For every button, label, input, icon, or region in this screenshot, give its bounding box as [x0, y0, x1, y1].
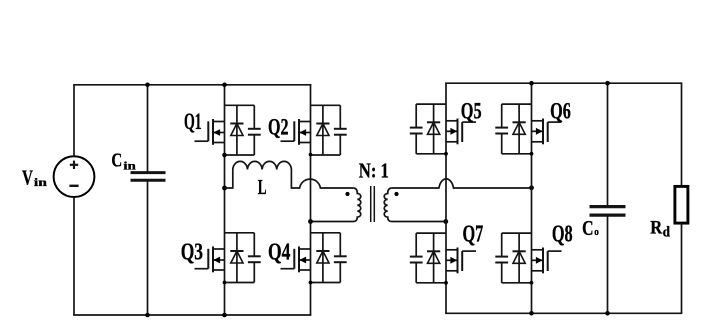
transformer T core	[371, 186, 375, 222]
junction: secondary top to leg D	[529, 185, 534, 190]
svg-text:C: C	[582, 216, 593, 240]
transistor Q7 cell (MOSFET + body diode + parallel capacitor)	[410, 233, 476, 283]
body diode of Q1	[230, 105, 243, 155]
svg-text:in: in	[34, 177, 48, 189]
MOSFET Q8 symbol	[532, 248, 562, 274]
MOSFET Q3 symbol	[195, 247, 225, 273]
junction: leg A bottom rail	[222, 313, 227, 318]
label Co	[582, 216, 599, 240]
junction: leg A top rail	[222, 83, 227, 88]
MOSFET Q1 symbol	[195, 119, 225, 145]
wire: Q2 cell bottom connection	[311, 154, 341, 156]
body diode of Q6	[513, 104, 526, 154]
transistor Q4 cell (MOSFET + body diode + parallel capacitor)	[281, 233, 347, 283]
svg-text:N: 1: N: 1	[359, 161, 389, 183]
wire: secondary top lead with crossover hop to leg D	[392, 179, 532, 188]
body diode of Q7	[427, 233, 440, 283]
junction: Q3 source node	[223, 281, 227, 285]
svg-text:Q4: Q4	[268, 238, 290, 265]
transformer T primary winding	[311, 188, 361, 222]
body diode of Q4	[316, 233, 329, 283]
wire: Q8 cell bottom connection	[502, 282, 532, 284]
transistor Q3 cell (MOSFET + body diode + parallel capacitor)	[195, 233, 261, 283]
wire: right bridge leg D (Q6/Q8)	[531, 83, 533, 313]
wire: source branch lower	[73, 197, 75, 315]
output capacitor Co	[590, 83, 626, 313]
wire: output top rail	[445, 82, 682, 84]
MOSFET Q5 symbol	[446, 119, 476, 145]
wire: Q6 cell top connection	[502, 103, 532, 105]
junction: Cin bottom rail	[145, 313, 150, 318]
svg-text:Q2: Q2	[268, 115, 289, 141]
wire: right bridge leg C (Q5/Q7)	[445, 83, 447, 313]
wire: Q7 cell top connection	[416, 232, 446, 234]
wire: Q5 cell bottom connection	[416, 153, 446, 155]
wire: Q2 cell top connection	[311, 104, 341, 106]
wire: output bottom rail	[445, 312, 682, 314]
wire: Q4 cell bottom connection	[311, 282, 341, 284]
svg-text:d: d	[663, 224, 670, 240]
parallel capacitor of Q4	[334, 233, 347, 283]
transistor Q1 cell (MOSFET + body diode + parallel capacitor)	[195, 105, 261, 155]
wire: Q7 cell bottom connection	[416, 282, 446, 284]
wire: left bridge leg A (Q1/Q3)	[224, 85, 226, 315]
wire: Q8 cell top connection	[502, 232, 532, 234]
wire: left bridge leg B (Q2/Q4)	[310, 85, 312, 315]
junction: secondary bottom to leg C	[443, 219, 448, 224]
label Cin	[111, 149, 136, 172]
load resistor Rd (rectangle)	[675, 83, 688, 313]
wire: input bottom rail	[73, 314, 311, 316]
svg-text:L: L	[258, 175, 267, 199]
wire: Q1 cell bottom connection	[225, 154, 255, 156]
MOSFET Q7 symbol	[446, 248, 476, 274]
wire: Q3 cell bottom connection	[225, 282, 255, 284]
junction: Q4 source node	[309, 281, 313, 285]
junction: Q7 source node	[444, 281, 448, 285]
wire: Q1 cell top connection	[225, 104, 255, 106]
transistor Q5 cell (MOSFET + body diode + parallel capacitor)	[410, 104, 476, 154]
svg-text:Q5: Q5	[461, 98, 482, 124]
junction: leg D top rail	[529, 81, 534, 86]
wire: Q3 cell top connection	[225, 232, 255, 234]
body diode of Q2	[316, 105, 329, 155]
parallel capacitor of Q1	[248, 105, 261, 155]
MOSFET Q6 symbol	[532, 119, 562, 145]
parallel capacitor of Q6	[495, 104, 508, 154]
svg-text:R: R	[650, 217, 663, 238]
body diode of Q8	[513, 233, 526, 283]
transistor Q8 cell (MOSFET + body diode + parallel capacitor)	[495, 233, 561, 283]
label Vin	[22, 166, 48, 190]
junction: Q6 source node	[530, 152, 534, 156]
junction: Co top rail	[605, 81, 610, 86]
transistor Q6 cell (MOSFET + body diode + parallel capacitor)	[495, 104, 561, 154]
input capacitor Cin	[131, 85, 166, 315]
parallel capacitor of Q5	[410, 104, 423, 154]
svg-text:V: V	[22, 166, 33, 190]
svg-text:Q6: Q6	[550, 98, 571, 124]
svg-text:Q3: Q3	[181, 238, 203, 265]
body diode of Q5	[427, 104, 440, 154]
wire: Q6 cell bottom connection	[502, 153, 532, 155]
input DC voltage source Vin (circle with + and -)	[54, 156, 95, 197]
junction: Cin top rail	[145, 83, 150, 88]
transistor Q2 cell (MOSFET + body diode + parallel capacitor)	[281, 105, 347, 155]
junction: Q2 source node	[309, 153, 313, 157]
junction: Co bottom rail	[605, 311, 610, 316]
svg-text:Q8: Q8	[552, 220, 573, 247]
transformer T secondary winding	[384, 188, 446, 222]
junction: Q8 source node	[530, 281, 534, 285]
inductor L with series wire and crossover hop to transformer primary	[225, 161, 354, 188]
svg-text:Q1: Q1	[184, 109, 202, 134]
svg-text:in: in	[123, 160, 136, 172]
junction: primary return to leg B	[308, 219, 313, 224]
wire: input top rail	[73, 84, 311, 86]
label Rd	[650, 217, 670, 240]
svg-text:o: o	[594, 226, 599, 238]
parallel capacitor of Q8	[495, 233, 508, 283]
wire: source branch upper	[73, 85, 75, 156]
body diode of Q3	[230, 233, 243, 283]
parallel capacitor of Q2	[334, 105, 347, 155]
junction: leg A to inductor tap	[222, 186, 227, 191]
MOSFET Q2 symbol	[281, 119, 311, 145]
parallel capacitor of Q3	[248, 233, 261, 283]
svg-text:Q7: Q7	[463, 220, 484, 247]
polarity dot: secondary	[394, 192, 398, 196]
wire: Q4 cell top connection	[311, 232, 341, 234]
MOSFET Q4 symbol	[281, 247, 311, 273]
junction: Q1 source node	[222, 153, 227, 158]
junction: leg D bottom rail	[529, 311, 534, 316]
svg-text:C: C	[111, 149, 122, 171]
parallel capacitor of Q7	[410, 233, 423, 283]
wire: Q5 cell top connection	[416, 103, 446, 105]
junction: Q5 source node	[444, 152, 448, 156]
polarity dot: primary	[345, 192, 349, 196]
